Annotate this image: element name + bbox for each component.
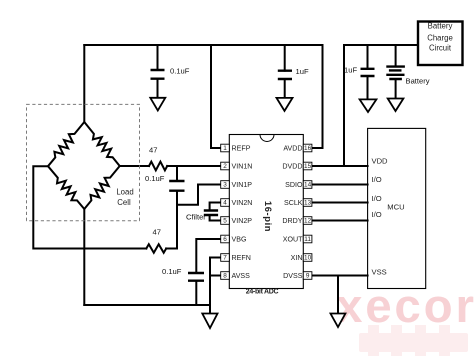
wire pin14 SDIO to MCU <box>312 184 368 186</box>
wire pin13 SCLK to MCU <box>312 202 368 204</box>
svg-text:AVDD: AVDD <box>283 145 302 153</box>
resistor R2 47 lower <box>146 244 166 253</box>
wire pin4 VIN2N to Cfilter <box>210 203 221 211</box>
wire battery to ground <box>395 80 397 99</box>
svg-text:8: 8 <box>223 273 227 280</box>
svg-text:REFP: REFP <box>232 145 251 153</box>
ground at C2 <box>277 98 293 111</box>
pin 10 XIN box <box>303 254 312 262</box>
pin 16 AVDD box <box>303 144 312 152</box>
svg-text:I/O: I/O <box>372 210 382 219</box>
svg-text:Cell: Cell <box>117 198 131 207</box>
ground at C3 <box>360 99 377 112</box>
pin 1 REFP box <box>221 144 230 152</box>
svg-text:VBG: VBG <box>232 236 247 244</box>
wire AVDD top rail <box>84 44 322 46</box>
svg-text:DRDY: DRDY <box>282 217 302 225</box>
pin 13 SCLK box <box>303 199 312 207</box>
svg-text:0.1uF: 0.1uF <box>170 67 190 76</box>
wire R1 to pin2 VIN1N <box>167 165 221 167</box>
ADC box <box>229 135 303 289</box>
svg-text:AVSS: AVSS <box>232 272 251 280</box>
resistor bridge arm top-right <box>84 122 119 166</box>
wire pin12 DRDY to MCU <box>312 220 368 222</box>
battery BT1 plates <box>386 67 405 79</box>
pin 3 VIN1P box <box>221 181 230 189</box>
svg-text:4: 4 <box>223 200 227 207</box>
watermark chip logo <box>359 325 468 356</box>
capacitor C5 0.1uF plates <box>188 273 204 281</box>
wire DVSS ground drop <box>337 276 339 314</box>
ground at DVSS <box>331 314 346 328</box>
svg-text:Battery: Battery <box>406 77 430 86</box>
wire bridge right to R1 <box>120 165 149 167</box>
wire pin7 REFN riser <box>210 258 221 276</box>
svg-text:16-pin: 16-pin <box>263 201 274 232</box>
svg-text:XOUT: XOUT <box>283 236 303 244</box>
svg-text:Load: Load <box>116 188 133 197</box>
wire C5 to bottom rail <box>195 281 197 305</box>
wire C1 to ground <box>157 79 159 98</box>
svg-text:XIN: XIN <box>291 254 303 262</box>
svg-text:DVSS: DVSS <box>283 272 303 280</box>
svg-text:47: 47 <box>153 228 161 237</box>
wire rail drop to REFP pin1 <box>211 45 221 148</box>
svg-text:47: 47 <box>149 146 157 155</box>
svg-text:VIN1P: VIN1P <box>232 181 253 189</box>
svg-text:I/O: I/O <box>372 175 382 184</box>
wire VIN1N junction to C4 <box>176 166 178 181</box>
svg-text:6: 6 <box>223 236 227 243</box>
pin 7 REFN box <box>221 254 230 262</box>
battery charge circuit box <box>418 22 463 66</box>
svg-text:7: 7 <box>223 255 227 262</box>
pin 4 VIN2N box <box>221 199 230 207</box>
resistor bridge arm right-bottom <box>84 166 119 209</box>
svg-text:Battery: Battery <box>428 22 453 31</box>
pin 11 XOUT box <box>303 235 312 243</box>
svg-text:0.1uF: 0.1uF <box>145 174 165 183</box>
svg-text:REFN: REFN <box>232 254 251 262</box>
capacitor C1 0.1uF plates <box>151 70 165 79</box>
svg-text:3: 3 <box>223 182 227 189</box>
wire pin8 AVSS riser <box>210 276 221 314</box>
ground at battery <box>388 99 404 112</box>
svg-text:DVDD: DVDD <box>282 163 302 171</box>
wire C2 to ground <box>284 79 286 97</box>
pin 5 VIN2P box <box>221 217 230 225</box>
wire pin6 VBG to C5 <box>196 239 220 273</box>
svg-text:Circuit: Circuit <box>429 44 452 53</box>
svg-text:I/O: I/O <box>372 194 382 203</box>
svg-text:VIN2P: VIN2P <box>232 217 253 225</box>
svg-text:5: 5 <box>223 218 227 225</box>
wire rail drop to C1 <box>157 45 159 70</box>
svg-text:VSS: VSS <box>372 268 387 277</box>
pin 8 AVSS box <box>221 272 230 280</box>
ground at analog bottom <box>202 314 217 329</box>
svg-text:MCU: MCU <box>387 203 404 212</box>
pin 12 DRDY box <box>303 217 312 225</box>
pin 6 VBG box <box>221 235 230 243</box>
pin 2 VIN1N box <box>221 162 230 170</box>
wire AVDD pin16 riser <box>312 45 323 148</box>
pin 15 DVDD box <box>303 162 312 170</box>
svg-text:10: 10 <box>304 255 312 262</box>
MCU box <box>368 128 426 288</box>
svg-text:1: 1 <box>223 145 227 152</box>
svg-text:11: 11 <box>304 236 311 243</box>
wire rail drop to C3 <box>367 45 369 69</box>
wire C3 to ground <box>367 76 369 99</box>
svg-text:12: 12 <box>304 218 312 225</box>
capacitor C3 1uF plates <box>361 69 375 76</box>
wire bottom rail <box>84 304 210 306</box>
wire DVDD top rail <box>344 44 418 46</box>
svg-text:VIN1N: VIN1N <box>232 163 253 171</box>
capacitor C4 0.1uF plates <box>169 181 184 191</box>
svg-text:0.1uF: 0.1uF <box>162 267 182 276</box>
bridge (load cell) <box>48 122 120 209</box>
svg-text:SCLK: SCLK <box>284 199 303 207</box>
wire bridge left to VIN1P riser <box>33 166 146 248</box>
pin 9 DVSS box <box>303 272 312 280</box>
svg-text:9: 9 <box>306 273 310 280</box>
wire bridge bottom drop <box>83 209 85 305</box>
wire pin9 DVSS to MCU VSS <box>312 275 368 277</box>
pin 14 SDIO box <box>303 181 312 189</box>
dashed load cell box <box>27 104 140 220</box>
svg-text:Charge: Charge <box>427 34 453 43</box>
capacitor Cfilter plates <box>204 211 218 216</box>
wire R2 to cap riser <box>166 191 177 249</box>
wire Cfilter to pin5 VIN2P <box>210 215 221 221</box>
resistor R1 47 upper <box>149 162 167 171</box>
ADC notch <box>260 135 274 142</box>
resistor bridge arm left-bottom <box>48 166 84 209</box>
svg-text:24-bit ADC: 24-bit ADC <box>246 289 279 296</box>
svg-text:15: 15 <box>304 163 312 170</box>
svg-text:VIN2N: VIN2N <box>232 199 253 207</box>
svg-text:1uF: 1uF <box>344 66 357 75</box>
capacitor C2 1uF plates <box>278 71 292 79</box>
svg-text:2: 2 <box>223 163 227 170</box>
svg-text:VDD: VDD <box>372 156 389 165</box>
svg-text:13: 13 <box>304 200 312 207</box>
svg-text:16: 16 <box>304 145 312 152</box>
wire rail drop to C2 <box>284 45 286 71</box>
wire rail drop to battery <box>395 45 397 66</box>
svg-text:SDIO: SDIO <box>285 181 303 189</box>
wire pin15 DVDD to MCU VDD <box>312 165 368 167</box>
svg-text:Cfilter: Cfilter <box>186 213 206 222</box>
wire DVDD rail drop <box>343 45 345 166</box>
wire VIN1P link to pin3 <box>177 185 221 205</box>
resistor bridge arm top-left <box>48 122 84 166</box>
ground at C1 <box>150 98 165 111</box>
wire rail to bridge top <box>83 45 85 122</box>
svg-text:1uF: 1uF <box>296 67 309 76</box>
svg-text:14: 14 <box>304 182 312 189</box>
